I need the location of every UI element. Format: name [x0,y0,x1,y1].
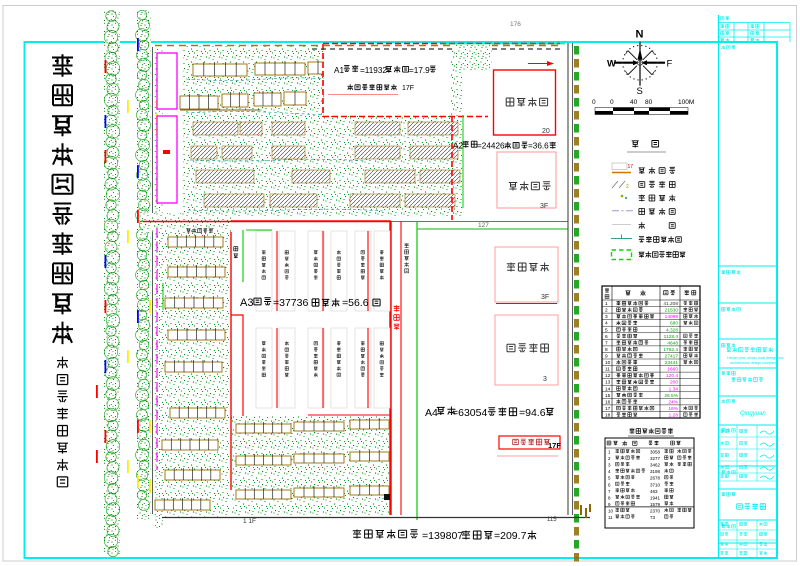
svg-text:200: 200 [670,380,678,386]
tree strip C (inner belt) [154,48,163,528]
svg-text:A2: A2 [453,142,463,151]
A1 area label text [334,65,436,75]
svg-text:1762.4: 1762.4 [663,347,678,353]
main north-south road west line [567,43,569,515]
svg-text:architectural design company: architectural design company [730,361,777,365]
community center tiny label [186,228,213,233]
west-mid magenta rect 1 [157,53,177,109]
legend row 4 planned road [612,208,675,215]
svg-text:16%: 16% [668,406,678,412]
A1 sub label [348,84,415,92]
svg-text:=63054: =63054 [452,407,487,419]
red dashed boundary east of A1 [451,116,453,220]
demolition hatched building grid [191,122,460,207]
drawing title big text [737,503,766,509]
svg-text:=209.7: =209.7 [494,530,527,542]
A3 lower slab row [256,328,390,408]
title column: Huixian City Huangshui Township People's Government (vertical) [52,54,73,344]
svg-text:1.28: 1.28 [669,413,679,419]
title block header mini table [719,16,791,42]
svg-text:0: 0 [610,99,614,106]
svg-text:2370: 2370 [650,509,661,514]
title block section dividers [719,266,778,543]
svg-text:4: 4 [605,321,608,327]
south road double line [162,517,590,519]
scale bar [592,99,694,115]
svg-text:=36.6: =36.6 [528,142,549,151]
svg-text:=37736: =37736 [273,297,308,309]
east-west road south green line [417,228,568,230]
red slab west of A3 [231,315,243,418]
street trees along road (green brown dashes) [574,46,579,562]
xianghuai road red east line [400,221,402,515]
A3 inner green line [243,230,272,282]
svg-text:5: 5 [605,327,608,333]
west-mid buildings [155,235,225,510]
south block trees [232,416,389,516]
west-mid magenta rect 2 [157,116,177,203]
public facilities table [605,438,694,528]
A3 area label text [240,297,380,309]
road-side tree band (east-west) [143,213,232,232]
existing building row 1 (brown) [193,60,358,76]
A1 zone white area [324,44,451,116]
tree strip B (second west belt) [136,10,151,520]
svg-text:11: 11 [608,515,613,520]
median yellow trees [127,100,129,473]
cold storage building 2 (pink) [497,152,556,210]
legend row 5 wall [612,222,675,229]
svg-text:A4: A4 [425,407,438,419]
svg-text:2: 2 [605,308,608,314]
svg-text:17: 17 [605,406,611,412]
svg-text:1579: 1579 [650,502,661,507]
row 2 underline [180,109,260,111]
svg-text:1128.4: 1128.4 [664,334,679,340]
svg-text:483: 483 [650,489,658,494]
green site line at x462 [462,115,464,208]
svg-text:17F: 17F [548,441,561,450]
A1 boundary red dashed (south edge) [323,116,488,118]
A2 area label text [453,141,556,151]
trees north of cold storage [455,44,492,70]
svg-text:176: 176 [510,21,521,28]
A3 upper slab row [256,231,390,311]
yellow marks near west boundary [156,100,158,136]
svg-text:Henan prov. urban-rural design: Henan prov. urban-rural design inst. [727,356,784,360]
svg-text:2: 2 [626,184,629,190]
svg-text:=11932: =11932 [360,66,387,75]
magenta boundary lower west [156,228,158,470]
svg-text:24%: 24% [668,399,678,405]
xianghuai road red west line [390,221,392,515]
A4 area label text [425,407,554,420]
svg-text:4648: 4648 [667,340,678,346]
svg-text:=24426: =24426 [477,142,505,151]
svg-text:3: 3 [605,314,608,320]
svg-text:=17.9: =17.9 [409,66,430,75]
red line under lower slab row [308,414,390,416]
technical-economic index table [602,286,700,419]
xianghuai road name (red vertical) [394,305,400,329]
svg-text:100M: 100M [678,99,694,106]
cold storage building 4 (pink) [495,315,558,385]
svg-text:115: 115 [547,517,557,523]
title block right border [776,42,778,558]
top green dimension line [440,43,565,45]
svg-text:Qingyuan: Qingyuan [740,411,766,417]
signature grid rows [719,425,778,481]
svg-text:=56.6: =56.6 [342,297,369,309]
pink line below office tower [497,455,558,457]
svg-text:S: S [637,86,643,97]
legend row 7 phase boundary [612,250,686,260]
svg-text:127: 127 [478,222,489,229]
svg-text:=94.6: =94.6 [519,407,546,419]
project name text [731,377,763,382]
svg-text:23441: 23441 [665,360,679,366]
svg-text:14: 14 [605,386,611,392]
svg-text:20: 20 [542,128,550,135]
svg-text:1 1F: 1 1F [243,518,256,525]
svg-text:17: 17 [628,164,634,170]
svg-text:3: 3 [543,376,547,383]
svg-text:9: 9 [605,354,608,360]
public facilities table title [628,428,674,436]
svg-text:1660: 1660 [667,367,678,373]
A1 underline [328,94,398,96]
svg-text:1941: 1941 [650,495,661,500]
legend row 6 site line [611,235,681,243]
compass rose [607,29,673,98]
A3 red boundary rectangle [231,221,390,515]
boundary fence brown dashes along top [155,45,560,47]
svg-text:15: 15 [605,393,611,399]
road side label (black vertical) [404,243,408,272]
svg-text:10: 10 [605,360,611,366]
svg-text:1: 1 [605,301,608,307]
subtitle column: Qingyuan Shanzhuang master plan (vertical) [57,357,68,487]
tree strip A colored trees [96,60,106,463]
boundary fence black dashes along top [312,48,560,50]
svg-text:680: 680 [670,321,678,327]
svg-text:41.208: 41.208 [663,301,678,307]
svg-text:2678: 2678 [650,476,661,481]
svg-text:12: 12 [605,373,611,379]
strip C yellow trees [149,300,151,493]
svg-text:73: 73 [650,515,656,520]
svg-text:3710: 3710 [650,482,661,487]
cold storage building 1 (red) [494,70,556,135]
svg-text:120.4: 120.4 [666,373,678,379]
west-mid block trees [160,228,230,518]
tree strip A (west belt) [104,10,120,557]
top block tree field [183,45,462,217]
drawing number text [0,0,1,1]
legend row 1 planned buildings [612,163,675,174]
bottom info grid [719,520,778,558]
red arrow north of storage [528,61,554,66]
east-west road green line [391,221,568,223]
svg-text:11: 11 [605,367,610,373]
svg-text:A1: A1 [334,66,344,75]
teal contour dashes top block [186,78,406,211]
svg-text:0: 0 [592,99,596,106]
svg-text:3277: 3277 [650,456,661,461]
A1 boundary red dashed (top edge) [323,43,560,45]
svg-text:14098: 14098 [665,314,679,320]
label at zone entry (vertical) [233,247,238,259]
svg-text:3462: 3462 [650,463,661,468]
svg-text:6: 6 [605,334,608,340]
green hedge line west block [162,283,164,310]
A1 boundary red dashed (west edge) [322,44,324,117]
small utility box at road [384,494,390,500]
svg-text:27417: 27417 [665,354,679,360]
design institute name text [726,347,784,365]
green planting line east of road [416,222,418,520]
road end brown marks [580,504,591,518]
legend row 3 greenery [621,195,676,202]
svg-text:=139807: =139807 [422,530,463,542]
legend title [627,141,666,153]
south block building row 1 [236,418,389,433]
svg-text:1.34: 1.34 [669,386,679,392]
south block building row 2 [236,450,389,465]
svg-text:A3: A3 [240,297,253,309]
legend row 2 existing buildings [612,181,675,190]
svg-text:18: 18 [605,413,611,419]
south block building row 3 [236,484,389,499]
svg-text:26.5%: 26.5% [664,393,678,399]
svg-text:3198: 3198 [650,469,661,474]
svg-text:3F: 3F [540,203,548,210]
svg-text:F: F [667,59,673,70]
existing building row 2 (brown) [180,90,306,109]
svg-text:17F: 17F [402,85,414,92]
svg-text:W: W [607,59,616,70]
cold storage building 3 (pink) [495,247,558,304]
tree strip B colored trees [137,38,139,488]
svg-text:21530: 21530 [665,308,679,314]
svg-text:8: 8 [605,347,608,353]
svg-text:3F: 3F [541,294,549,301]
svg-text:7: 7 [605,340,608,346]
title block small labels [721,45,740,528]
svg-text:N: N [636,29,644,41]
svg-text:16: 16 [605,399,611,405]
site west boundary line [152,47,154,514]
east-west road red line [143,221,391,223]
svg-text:10: 10 [608,509,614,514]
office tower (red outline) [494,436,561,450]
title block left border [718,15,720,558]
svg-text:3058: 3058 [650,450,661,455]
svg-text:13: 13 [605,380,611,386]
main north-south road east line [572,43,574,515]
existing building row 1b (brown) [362,58,392,72]
svg-text:80: 80 [645,99,653,106]
total planned area text [353,530,536,543]
svg-text:40: 40 [630,99,638,106]
svg-text:4.328: 4.328 [666,327,678,333]
corner magenta mark [459,45,466,49]
